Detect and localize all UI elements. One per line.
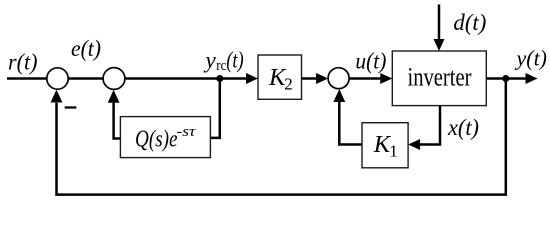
wire d(t) disturbance [438,5,441,41]
svg-text:2: 2 [284,75,293,94]
arrowhead d(t) into inverter [434,39,445,51]
arrowhead into S3 bottom [333,89,345,102]
wire S1 to S2 [68,77,103,80]
svg-text:y(t): y(t) [515,46,547,71]
arrowhead into S3 [316,73,328,84]
wire r(t) input [7,77,47,80]
svg-text:1: 1 [389,142,398,161]
arrowhead into S1 bottom [51,90,63,103]
arrowhead output [526,73,538,84]
wire S3 to inverter [349,77,381,80]
svg-text:x(t): x(t) [447,115,479,140]
arrowhead into inverter [380,73,392,84]
summing junction S2 [103,68,125,90]
summing junction S1 [47,68,68,89]
node output junction dot [502,75,509,82]
svg-text:e(t): e(t) [71,36,101,61]
summing junction S3 [328,68,349,89]
minus sign at S1 [65,106,77,108]
svg-text:rc: rc [216,58,226,74]
wire S2 to K2 [125,77,247,80]
node yrc junction dot [216,75,223,82]
svg-text:(t): (t) [226,48,244,73]
wire outer feedback loop [57,79,506,195]
block Q(s)e^-st [120,117,210,158]
wire Q block output up to S2 [114,102,121,138]
block K2 [258,55,302,99]
arrowhead into K1 [408,139,420,150]
wire K1 output up to S3 [339,102,362,145]
svg-text:Q(s)e: Q(s)e [135,127,178,153]
wire inverter output [486,77,526,80]
svg-text:-sτ: -sτ [177,124,196,140]
wire K2 to S3 [302,77,318,80]
svg-text:inverter: inverter [408,63,472,92]
svg-text:r(t): r(t) [8,49,38,74]
svg-text:y: y [204,48,217,73]
block inverter [392,51,486,106]
svg-text:d(t): d(t) [453,10,486,35]
wire x(t) from inverter to K1 [420,106,441,145]
svg-text:u(t): u(t) [355,49,386,74]
arrowhead into K2 [246,73,258,84]
wire node yrc down to Q block [210,79,219,138]
arrowhead into S2 bottom [108,90,120,103]
block K1 [362,123,408,168]
